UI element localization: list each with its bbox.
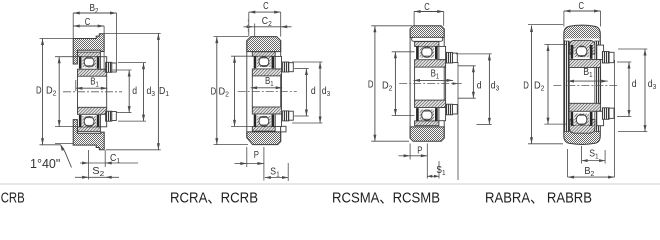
RABR inner ring (bottom) — [569, 103, 601, 111]
RCR inner ring (bottom) — [252, 107, 281, 114]
CRB inner ring (top) — [78, 69, 107, 76]
svg-text:RABRA、 RABRB: RABRA、 RABRB — [485, 189, 592, 205]
CRB collar end (top) — [112, 63, 117, 72]
RCR outer ring (top) — [252, 52, 275, 57]
svg-text:CRB: CRB — [1, 189, 25, 205]
svg-text:d: d — [311, 86, 316, 97]
RCSM outer ring (top) — [415, 42, 439, 47]
svg-text:C: C — [263, 1, 269, 12]
RCSM locking collar (top) — [446, 52, 453, 63]
dimension D — [42, 39, 44, 145]
outer ring shell lower (4) — [569, 119, 595, 133]
RABR collar end (top) — [609, 52, 614, 62]
dimension P — [240, 162, 247, 165]
rubber liner right (4) — [595, 41, 600, 132]
svg-text:d: d — [632, 79, 637, 90]
RABR locking collar (bottom) — [602, 108, 609, 120]
RABR bore line left — [568, 68, 570, 104]
svg-text:1°40": 1°40" — [30, 157, 60, 171]
RABR seal right (top) — [590, 45, 593, 59]
RCR bore line right — [281, 76, 283, 107]
CRB bore line right — [106, 76, 108, 107]
RCSM race shoulders (top) — [420, 47, 435, 58]
RCSM inner ring (top) — [415, 60, 446, 67]
RABR axis centerline — [553, 84, 617, 86]
RABR seal right (bottom) — [590, 112, 593, 126]
dimension D2 — [58, 57, 60, 127]
dimension B1 (3) — [414, 79, 454, 81]
RCR bore line left — [251, 76, 253, 107]
RCR seal left (top) — [254, 56, 257, 68]
housing upper half — [73, 34, 104, 64]
RCR ball (bottom) — [259, 116, 269, 126]
dimension d3 (2) — [319, 62, 321, 123]
RCR race shoulders (bottom) — [257, 116, 271, 127]
svg-text:RCRA、RCRB: RCRA、RCRB — [170, 189, 258, 205]
RCSM collar end (bottom) — [453, 105, 458, 115]
housing bottom band — [247, 132, 281, 145]
svg-text:C: C — [579, 1, 585, 12]
dimension D2 (3) — [394, 52, 396, 116]
housing interior blank (4) — [565, 39, 600, 132]
RABR locking collar (top) — [602, 52, 609, 64]
dimension D2 (2) — [234, 56, 236, 126]
CRB ball (bottom) — [84, 117, 94, 127]
dimension d3 (4) — [644, 49, 646, 132]
CRB race shoulders (bottom) — [82, 116, 96, 127]
RCSM ball (bottom) — [422, 110, 432, 120]
RCSM axis centerline — [399, 83, 462, 85]
RCSM inner ring step (bottom) — [439, 108, 446, 121]
dimension S1 (2) — [265, 176, 271, 179]
svg-text:C: C — [85, 17, 91, 28]
CRB bore line left — [77, 76, 79, 107]
dimension d (3) — [472, 66, 474, 98]
RABR ball (top) — [576, 46, 587, 57]
RCR ball (top) — [259, 57, 269, 67]
RCR locking collar (top) — [283, 62, 289, 72]
housing side walls — [246, 41, 248, 138]
dimension C2 — [247, 25, 254, 28]
CRB race shoulders (top) — [82, 57, 96, 68]
CRB outer ring (top) — [78, 52, 101, 57]
housing side walls (3) — [409, 29, 411, 138]
dimension D1 — [157, 33, 159, 149]
dimension B2 (4) — [568, 176, 615, 178]
RCR seal left (bottom) — [254, 115, 257, 127]
dimension P (3) — [404, 154, 411, 157]
dimension B2 — [73, 12, 116, 14]
RCSM collar end (top) — [453, 53, 458, 63]
RCR locking collar (bottom) — [283, 111, 289, 121]
CRB inner ring step (top) — [100, 57, 106, 69]
RABR race shoulders (bottom) — [574, 114, 589, 126]
RABR seal left (top) — [571, 45, 574, 59]
dimension S2 — [82, 176, 89, 179]
dimension B1 (2) — [251, 87, 283, 89]
dimension D (4) — [531, 26, 533, 144]
RCR collar end (top) — [289, 63, 294, 72]
RCR inner ring step (top) — [275, 56, 281, 69]
dimension D2 (4) — [547, 45, 549, 125]
CRB ball (top) — [84, 57, 94, 67]
RCR axis centerline — [238, 90, 297, 92]
RCR seal right (bottom) — [272, 115, 275, 127]
dimension d — [128, 70, 130, 113]
RCSM inner ring step (top) — [439, 46, 446, 59]
RCSM inner ring (bottom) — [415, 100, 446, 107]
outer ring shell upper (4) — [569, 40, 595, 54]
CRB collar end (bottom) — [112, 112, 117, 121]
dimension D (2) — [216, 37, 218, 145]
RABR bore line right — [600, 68, 602, 104]
CRB locking collar (bottom) — [106, 111, 112, 121]
RCSM seal right (top) — [435, 46, 438, 59]
CRB seal right (top) — [97, 57, 100, 69]
RCR race shoulders (top) — [257, 57, 271, 68]
dimension C1 — [82, 162, 89, 165]
RCSM ball (top) — [422, 47, 432, 57]
svg-text:D: D — [368, 80, 374, 91]
svg-text:P: P — [254, 150, 259, 161]
svg-text:d: d — [132, 86, 137, 97]
RABR inner ring (top) — [569, 60, 601, 68]
dimension C (2) — [249, 11, 281, 13]
RCR outer ring (bottom) — [252, 127, 275, 132]
RABR inner ring step (top) — [597, 45, 604, 59]
dimension D (3) — [374, 26, 376, 141]
CRB outer ring (bottom) — [78, 127, 101, 131]
long extension line right (3) — [457, 62, 459, 180]
dimension S1 (3) — [427, 175, 432, 178]
RABR seal left (bottom) — [571, 112, 574, 126]
dimension C — [73, 25, 104, 27]
housing lower half — [73, 120, 104, 150]
svg-text:D: D — [36, 86, 42, 97]
RABR ball (bottom) — [576, 114, 587, 125]
RCSM seal left (top) — [416, 46, 419, 59]
CRB locking collar (top) — [106, 62, 112, 72]
dimension B1 — [76, 87, 108, 89]
dimension d (2) — [305, 69, 307, 117]
RCR seal right (top) — [272, 56, 275, 68]
taper angle 1deg40 leader — [55, 142, 73, 144]
RCSM bore line left — [414, 67, 416, 100]
RABR inner ring step (bottom) — [597, 111, 604, 125]
svg-text:D: D — [211, 87, 217, 98]
RCR collar end (bottom) — [289, 111, 294, 120]
svg-text:D: D — [523, 80, 529, 91]
housing top band (3) — [410, 26, 444, 38]
CRB inner ring (bottom) — [78, 107, 107, 114]
RCR inner ring step (bottom) — [275, 114, 281, 127]
CRB axis centerline — [63, 91, 122, 93]
separator line — [0, 183, 660, 185]
CRB inner ring step (bottom) — [100, 114, 106, 127]
CRB seal right (bottom) — [97, 115, 100, 127]
dimension S1 (4) — [582, 159, 588, 162]
svg-text:P: P — [417, 145, 422, 156]
RABR collar end (bottom) — [609, 108, 614, 118]
housing barrel (4) — [564, 25, 601, 144]
housing lug bottom right — [281, 126, 286, 132]
dimension C (3) — [414, 11, 444, 13]
dimension d3 (3) — [488, 54, 490, 125]
RCSM seal right (bottom) — [435, 108, 438, 121]
RCSM race shoulders (bottom) — [420, 110, 435, 121]
centerline end arrow (3) — [453, 82, 459, 85]
svg-text:C: C — [424, 2, 430, 13]
dimension C (4) — [564, 10, 601, 12]
dimension d3 — [143, 63, 145, 122]
housing seat upper (3) — [412, 37, 443, 41]
svg-text:d: d — [477, 80, 482, 91]
RCSM bore line right — [445, 67, 447, 100]
rubber liner left (4) — [564, 41, 569, 132]
RCR inner ring (top) — [252, 69, 281, 76]
RCSM seal left (bottom) — [416, 108, 419, 121]
RABR race shoulders (top) — [574, 45, 589, 57]
CRB seal left (top) — [79, 57, 82, 69]
RCSM outer ring (bottom) — [415, 121, 439, 126]
svg-text:RCSMA、RCSMB: RCSMA、RCSMB — [332, 189, 440, 205]
housing top band — [247, 37, 281, 52]
RCSM locking collar (bottom) — [446, 104, 453, 115]
dimension d (4) — [628, 62, 630, 117]
dimension B1 (4) — [568, 80, 608, 82]
housing bottom band (3) — [410, 127, 444, 141]
CRB seal left (bottom) — [79, 115, 82, 127]
